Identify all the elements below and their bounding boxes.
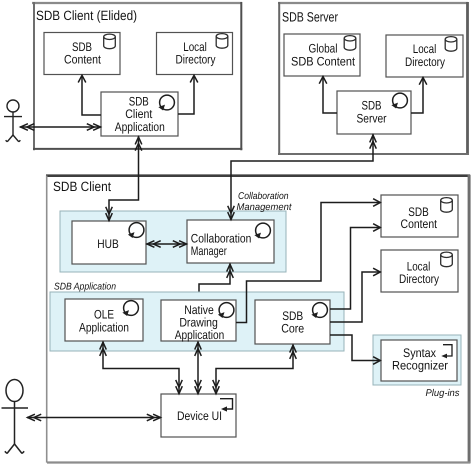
wire SDB Server to Collaboration Manager (double headed) bbox=[228, 135, 377, 220]
svg-text:OLE: OLE bbox=[94, 308, 114, 322]
svg-text:SDB Application: SDB Application bbox=[54, 282, 116, 293]
box Collaboration Manager bbox=[187, 220, 274, 263]
svg-text:Device UI: Device UI bbox=[177, 409, 222, 423]
svg-text:SDB Content: SDB Content bbox=[291, 55, 355, 69]
svg-text:Server: Server bbox=[357, 112, 387, 126]
svg-text:Recognizer: Recognizer bbox=[392, 359, 448, 373]
svg-text:Collaboration: Collaboration bbox=[238, 191, 289, 202]
svg-text:Core: Core bbox=[281, 322, 304, 336]
svg-text:Local: Local bbox=[413, 42, 437, 56]
actor user (bottom) bbox=[2, 380, 29, 454]
box SDB Content (client) bbox=[381, 195, 458, 237]
wire SDB Core to SDB Content (client) bbox=[330, 224, 380, 309]
region SDB Application bbox=[50, 282, 344, 352]
wire actor to Device UI (double headed) bbox=[27, 414, 161, 421]
svg-text:Application: Application bbox=[115, 120, 165, 134]
box HUB bbox=[72, 221, 146, 264]
wire SDB Client Application to SDB Content (elided) bbox=[78, 75, 101, 115]
svg-text:Plug-ins: Plug-ins bbox=[426, 388, 460, 399]
svg-text:Application: Application bbox=[79, 321, 129, 335]
hook icon (Device UI) bbox=[220, 399, 233, 412]
wire SDB Core to Local Directory (client) bbox=[330, 268, 380, 322]
wire SDB Core to Device UI (double headed) bbox=[213, 345, 297, 394]
box Local Directory (client) bbox=[381, 250, 458, 292]
wire actor to SDB Client Application (double headed) bbox=[20, 124, 101, 131]
wire SDB Server to Local Directory (server) bbox=[411, 78, 427, 114]
svg-text:Global: Global bbox=[309, 42, 338, 56]
svg-text:SDB Client (Elided): SDB Client (Elided) bbox=[36, 8, 137, 23]
svg-text:SDB Client: SDB Client bbox=[53, 179, 111, 194]
hook icon (Syntax Recognizer) bbox=[441, 345, 452, 359]
container box SDB Client bbox=[46, 175, 470, 464]
box Native Drawing Application bbox=[161, 300, 236, 342]
svg-text:Application: Application bbox=[175, 328, 225, 342]
wire Native Drawing Application to Device UI (double headed) bbox=[195, 342, 202, 394]
actor user (top) bbox=[4, 100, 22, 142]
svg-text:Management: Management bbox=[237, 202, 293, 213]
svg-text:Directory: Directory bbox=[399, 272, 440, 286]
wire Native Drawing Application to Collaboration Manager bbox=[199, 264, 233, 300]
box OLE Application bbox=[65, 299, 143, 341]
box Local Directory (elided client) bbox=[157, 33, 233, 75]
svg-text:SDB: SDB bbox=[362, 99, 382, 113]
container box SDB Server bbox=[278, 2, 469, 155]
region Collaboration Management bbox=[60, 191, 293, 272]
svg-text:Directory: Directory bbox=[405, 55, 446, 69]
svg-text:Content: Content bbox=[401, 217, 438, 231]
svg-text:Manager: Manager bbox=[191, 244, 227, 258]
svg-text:SDB Server: SDB Server bbox=[282, 9, 338, 24]
wire HUB to Collaboration Manager (double headed) bbox=[147, 241, 187, 248]
wire Native Drawing Application to SDB Content (client) bbox=[236, 199, 380, 323]
wire SDB Server to Global SDB Content bbox=[319, 77, 337, 114]
region Plug-ins bbox=[373, 335, 461, 399]
svg-text:Client: Client bbox=[125, 107, 152, 121]
container box SDB Client (Elided) bbox=[32, 2, 242, 150]
box SDB Content (elided client) bbox=[44, 33, 120, 75]
box SDB Client Application bbox=[101, 92, 178, 136]
svg-text:HUB: HUB bbox=[97, 237, 119, 251]
wire SDB Client Application to Local Directory (elided) bbox=[178, 75, 198, 114]
wire SDB Client Application (elided) to HUB (double headed) bbox=[106, 137, 142, 221]
box Syntax Recognizer bbox=[381, 340, 457, 381]
box Global SDB Content bbox=[284, 34, 360, 76]
box SDB Server application bbox=[337, 91, 411, 134]
box Local Directory (server) bbox=[386, 35, 463, 77]
svg-text:Directory: Directory bbox=[176, 53, 217, 67]
wire OLE Application to Device UI (double headed) bbox=[100, 342, 183, 394]
box SDB Core bbox=[255, 300, 330, 344]
box Device UI bbox=[161, 394, 236, 437]
wire SDB Core to Syntax Recognizer bbox=[330, 335, 380, 364]
svg-text:Content: Content bbox=[64, 53, 101, 67]
